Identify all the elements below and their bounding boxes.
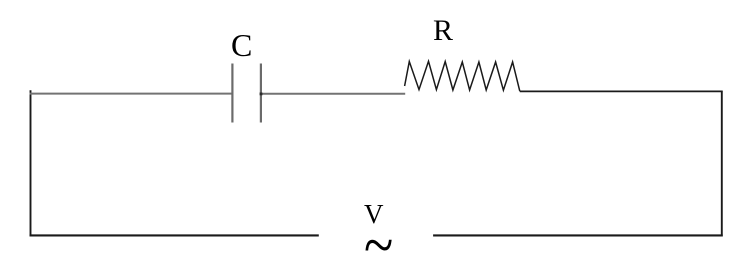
capacitor C1 right plate	[260, 64, 262, 123]
label C	[231, 27, 252, 64]
wire bottom right	[433, 234, 723, 236]
wire right vertical	[721, 91, 723, 237]
resistor R zigzag	[405, 61, 520, 91]
junction node at right plate	[260, 93, 263, 96]
wire left vertical	[30, 90, 32, 236]
AC source tilde symbol	[364, 208, 393, 277]
label V	[364, 199, 384, 230]
label R	[433, 14, 453, 48]
wire bottom left	[30, 234, 319, 236]
wire capacitor to resistor (gray)	[261, 93, 405, 95]
wire top right	[520, 90, 723, 92]
wire top left (gray)	[30, 93, 233, 95]
capacitor C1 left plate	[231, 64, 233, 123]
